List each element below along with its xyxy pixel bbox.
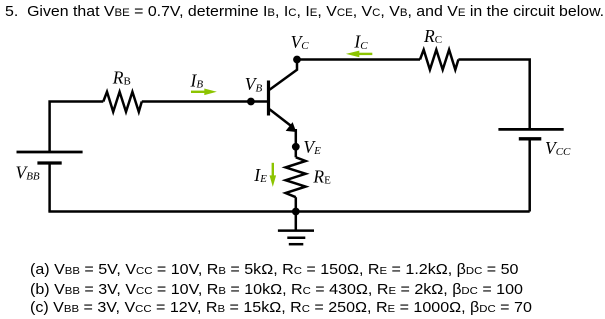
wire collector top: VC node to RC [297, 58, 420, 61]
svg-text:RE: RE [312, 166, 331, 186]
transistor Q1 base bar [267, 81, 270, 116]
ground [278, 212, 314, 245]
svg-text:VBB: VBB [16, 162, 40, 182]
wire RB to VB node to transistor base [142, 100, 269, 103]
node bottom-rail junction dot [292, 208, 300, 216]
wire base-left: from RB left end to top-left corner and down to VBB [50, 102, 104, 153]
svg-text:RC: RC [423, 26, 442, 46]
node VC dot [293, 56, 301, 64]
current arrow IC (green, left) [346, 51, 372, 58]
resistor RC [420, 50, 458, 70]
transistor Q1 collector lead [270, 60, 298, 90]
transistor Q1 emitter lead with arrow [270, 109, 296, 131]
wire VCC bottom to bottom rail [528, 139, 531, 212]
node VB dot [247, 98, 255, 106]
resistor RB [103, 92, 142, 112]
svg-text:VB: VB [245, 74, 263, 94]
current arrow IE (green, down) [270, 163, 277, 187]
battery VCC [498, 129, 563, 138]
wire VBB bottom to bottom rail [48, 163, 51, 212]
svg-text:VCC: VCC [545, 138, 571, 158]
node VE dot [292, 143, 300, 151]
title text [5, 3, 604, 20]
wire RE bottom to bottom rail node [295, 197, 298, 211]
svg-text:IB: IB [190, 71, 204, 91]
options text [30, 262, 532, 318]
svg-text:VE: VE [303, 137, 321, 157]
wire RC to top-right corner down to VCC [458, 60, 529, 130]
wire emitter vertical: arrow corner to VE node to RE [295, 129, 298, 157]
resistor RE [286, 157, 306, 197]
svg-text:RB: RB [112, 68, 131, 88]
battery VBB [17, 152, 83, 163]
wire bottom rail [48, 210, 529, 213]
svg-text:IE: IE [253, 165, 267, 185]
current arrow IB (green, right) [191, 89, 217, 96]
svg-text:VC: VC [291, 32, 310, 52]
svg-text:IC: IC [353, 32, 368, 52]
